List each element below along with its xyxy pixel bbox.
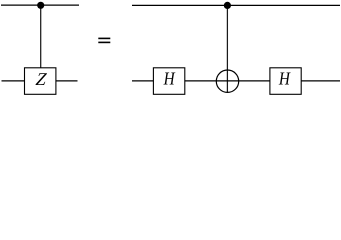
svg-text:H: H: [278, 68, 291, 88]
svg-text:H: H: [163, 68, 176, 88]
